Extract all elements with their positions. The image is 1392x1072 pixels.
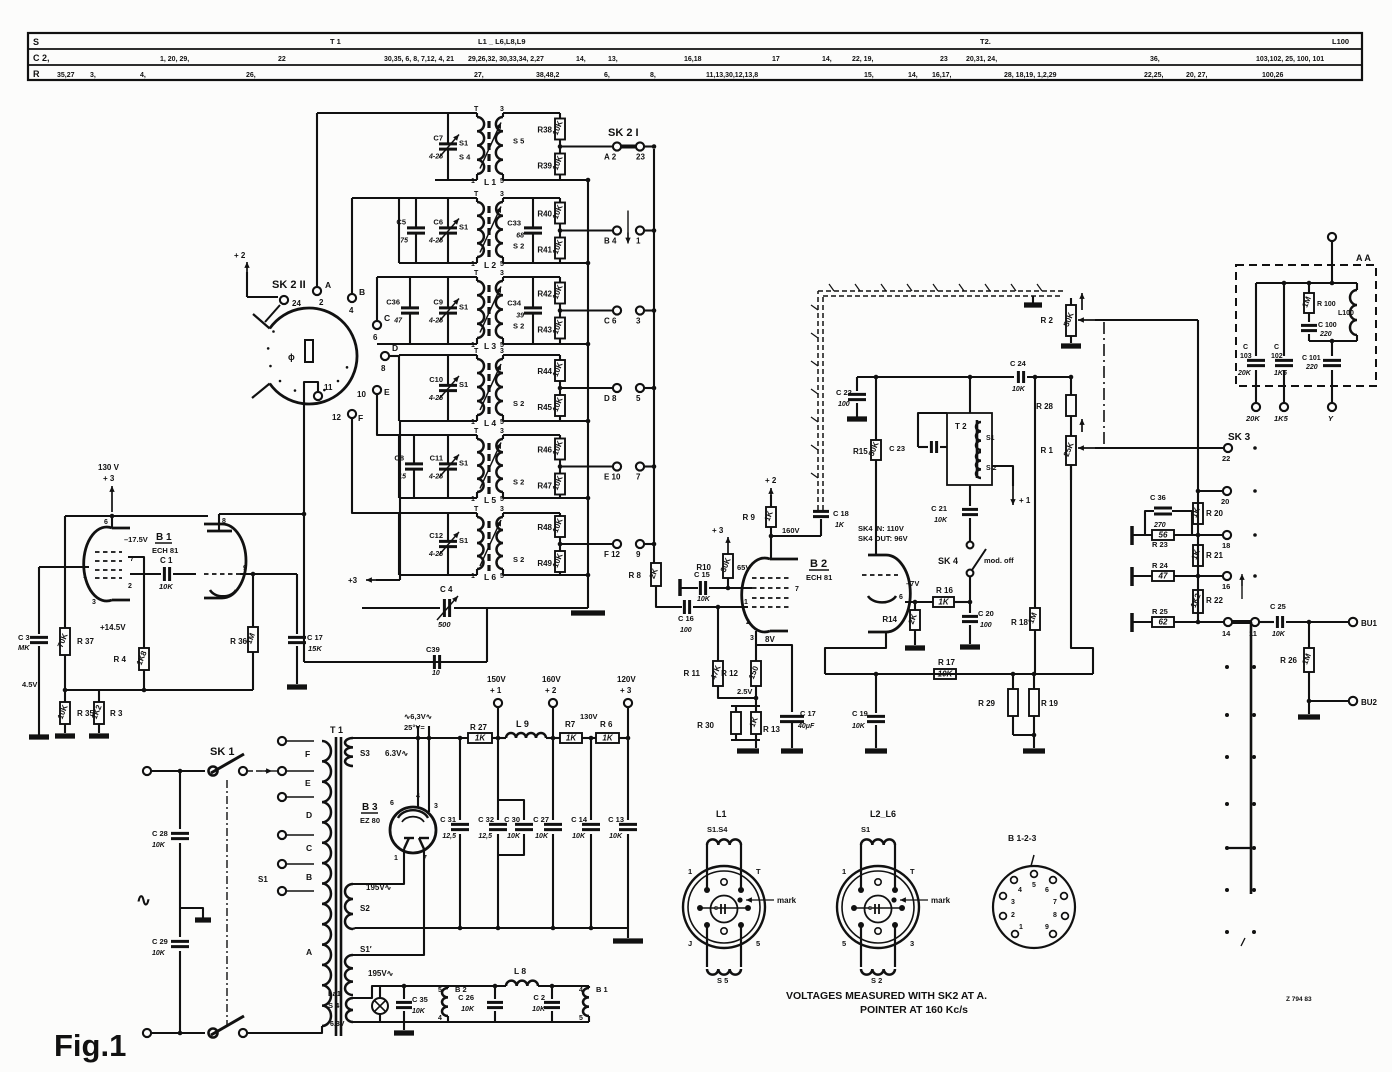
svg-text:47: 47 [1158, 571, 1168, 580]
svg-text:4: 4 [349, 306, 354, 315]
svg-text:C39: C39 [426, 645, 440, 654]
svg-text:T 1: T 1 [330, 725, 343, 735]
capacitor C26 [458, 984, 503, 1022]
terminal 160V +2 [542, 675, 561, 738]
svg-text:2: 2 [746, 619, 750, 626]
wire T2 to rail [969, 377, 971, 413]
svg-text:1K5: 1K5 [1274, 370, 1287, 377]
IF transformer L1 tuning arrow [480, 123, 501, 169]
ground below R30 R13 [737, 748, 759, 753]
label 6.3V 250V at B3 [404, 712, 433, 732]
svg-text:C 100: C 100 [1318, 322, 1337, 329]
winding label S1 of L4 [459, 380, 468, 389]
svg-text:1K: 1K [475, 733, 486, 742]
rail 130V to B1 sections [65, 514, 208, 519]
svg-text:C 32: C 32 [478, 815, 494, 824]
svg-text:S1: S1 [459, 139, 468, 148]
svg-text:R 30: R 30 [697, 721, 714, 730]
wire R38/R39 junction to switch [558, 140, 613, 154]
svg-text:R 16: R 16 [936, 586, 953, 595]
resistor R17 [934, 658, 956, 679]
trimmer capacitor C6 [428, 198, 459, 263]
IF transformer L5 core [487, 443, 490, 494]
svg-text:10K: 10K [159, 582, 173, 591]
svg-text:10K: 10K [1272, 631, 1286, 638]
switch SK3 rotor line [1250, 622, 1253, 894]
svg-text:4: 4 [438, 1015, 442, 1022]
power supply ground [613, 928, 643, 941]
svg-text:R15: R15 [853, 447, 868, 456]
svg-text:C: C [868, 906, 872, 912]
switch SK1 upper pole [209, 754, 248, 776]
terminal 16 of SK3 [1198, 572, 1257, 591]
svg-text:mark: mark [931, 896, 951, 905]
dummy antenna box A-A [1236, 253, 1376, 386]
tube B1 heptode pin labels [83, 556, 134, 606]
svg-text:1, 20, 29,: 1, 20, 29, [160, 56, 189, 63]
heater wire 6.3V to B3 [353, 738, 468, 758]
heater winding of B1 [579, 985, 608, 1022]
svg-text:S 5: S 5 [513, 137, 524, 146]
ground below R19 [1023, 748, 1045, 753]
svg-text:28, 18,19, 1,2,29: 28, 18,19, 1,2,29 [1004, 72, 1057, 79]
svg-text:S1: S1 [986, 435, 995, 442]
svg-text:SK 4: SK 4 [938, 556, 958, 566]
svg-text:R 12: R 12 [721, 669, 738, 678]
oscillator top rail [857, 375, 1014, 380]
tube B1 triode anode plate [207, 514, 232, 531]
svg-text:10K: 10K [152, 950, 166, 957]
transformer T1 primary winding [322, 741, 331, 1026]
terminal B 4 of SK2 II [348, 287, 365, 315]
lamp La1 [372, 986, 388, 1022]
label 160V [782, 526, 800, 535]
svg-text:4-25: 4-25 [428, 154, 443, 161]
terminal 14 of SK3 [1198, 618, 1232, 638]
mains input terminal lower [143, 1029, 205, 1037]
trimmer capacitor C7 [428, 113, 459, 180]
heater rail [353, 986, 589, 998]
svg-text:2: 2 [1011, 912, 1015, 919]
resistor R43 [537, 318, 565, 345]
svg-text:C 29: C 29 [152, 937, 168, 946]
svg-text:R 6: R 6 [600, 720, 613, 729]
svg-text:POINTER AT 160 Kc/s: POINTER AT 160 Kc/s [860, 1004, 968, 1016]
svg-text:S1: S1 [258, 875, 268, 884]
resistor R26 [1280, 622, 1314, 703]
top rail of stage L1 [317, 112, 560, 114]
svg-text:R 100: R 100 [1317, 301, 1336, 308]
svg-text:B 3: B 3 [362, 802, 378, 813]
svg-text:L 6: L 6 [484, 572, 496, 582]
mixer output bus [825, 672, 1093, 677]
svg-text:8V: 8V [765, 635, 775, 644]
resistor R7 [560, 720, 582, 743]
ground below R35 [55, 733, 75, 738]
svg-text:5: 5 [756, 939, 760, 948]
winding label S1 of L3 [459, 303, 468, 312]
IF transformer L3 tuning arrow [480, 287, 501, 333]
wire T1 primary bottom to SK1 [310, 1026, 322, 1033]
top rail of stage L5 [399, 434, 560, 436]
resistor R12 [721, 645, 761, 686]
svg-text:8,: 8, [650, 72, 656, 79]
svg-text:C 36: C 36 [1150, 493, 1166, 502]
svg-text:14,: 14, [576, 56, 586, 63]
switch SK2 I label [608, 127, 639, 139]
terminal C 6 of SK2 I [604, 306, 621, 325]
svg-text:1K5: 1K5 [1274, 414, 1289, 423]
wire SK4 to R16 node [968, 576, 973, 604]
svg-text:195V∿: 195V∿ [368, 969, 394, 978]
svg-text:500: 500 [438, 620, 451, 629]
capacitor C28 [152, 771, 189, 937]
label 6.3V at lamp [330, 1021, 345, 1028]
mains ground tap [180, 908, 211, 920]
terminal 20K [1245, 403, 1260, 423]
capacitor C22 [836, 377, 866, 417]
svg-text:4: 4 [579, 987, 583, 994]
svg-text:1: 1 [842, 867, 846, 876]
svg-text:R14: R14 [882, 615, 897, 624]
supply 130V +3 feed to B1 [98, 463, 120, 512]
resistor R19 [1013, 674, 1058, 748]
svg-text:E: E [305, 778, 311, 788]
tube B1 triode cathode [210, 590, 236, 596]
svg-text:R 22: R 22 [1206, 596, 1223, 605]
svg-text:R 26: R 26 [1280, 656, 1297, 665]
svg-text:L 5: L 5 [484, 495, 496, 505]
svg-text:C6: C6 [433, 218, 443, 227]
tube B1 grid wire to left [39, 566, 89, 568]
svg-text:SK 1: SK 1 [210, 746, 234, 758]
resistor R44 [537, 355, 565, 381]
lamp La1 labels [328, 989, 341, 1010]
terminal 150V +1 [487, 675, 506, 738]
power supply ground bus [355, 926, 628, 931]
svg-text:23: 23 [940, 56, 948, 63]
svg-text:SK 2 I: SK 2 I [608, 127, 639, 139]
svg-text:8: 8 [1053, 912, 1057, 919]
wire E terminal to stage L5 [377, 394, 399, 435]
IF bank ground [571, 610, 605, 615]
component index table frame [28, 33, 1362, 80]
svg-text:A 2: A 2 [604, 153, 617, 162]
terminal E 10 of SK2 II [357, 386, 390, 399]
tube B2 triode grid [862, 574, 898, 576]
svg-text:+ 3: + 3 [620, 686, 632, 695]
IF transformer L4 core [487, 363, 490, 417]
svg-text:29,26,32, 30,33,34, 2,27: 29,26,32, 30,33,34, 2,27 [468, 56, 544, 63]
svg-text:38,48,2: 38,48,2 [536, 72, 559, 79]
cathode rail 4.5V [22, 680, 253, 690]
svg-text:120V: 120V [617, 675, 636, 684]
transformer T1 primary taps [278, 737, 314, 895]
svg-text:3: 3 [750, 635, 754, 642]
svg-text:S 2: S 2 [513, 242, 524, 251]
trimmer capacitor C12 [428, 513, 459, 575]
wire R42/R43 junction to switch [558, 304, 613, 318]
resistor R14 [882, 600, 920, 645]
svg-text:C36: C36 [386, 298, 400, 307]
resistor R23 [1132, 526, 1200, 549]
switch SK3 label [1228, 432, 1251, 443]
svg-text:25°V=: 25°V= [404, 723, 425, 732]
tube B2 triode anode wire [825, 632, 886, 674]
IF transformer L5 secondary winding [496, 428, 504, 498]
svg-text:L2_L6: L2_L6 [870, 809, 896, 819]
wiper arrow at SK3 [1239, 574, 1244, 599]
trimmer capacitor C9 [428, 277, 459, 344]
svg-text:C 19: C 19 [852, 709, 868, 718]
svg-text:1K: 1K [602, 733, 613, 742]
table row C labels [33, 53, 1324, 63]
cathode wire 8V [756, 635, 792, 712]
ground below R26 [1298, 701, 1320, 717]
shielded oscillator line [811, 284, 1066, 510]
svg-text:C9: C9 [433, 298, 443, 307]
grid wire C16 to B2 [693, 605, 748, 610]
svg-text:16: 16 [1222, 582, 1230, 591]
svg-text:1: 1 [744, 599, 748, 606]
resistor R45 [537, 395, 565, 421]
svg-text:S: S [33, 37, 39, 47]
svg-text:1: 1 [1019, 924, 1023, 931]
terminal F 12 of SK2 I [604, 540, 621, 559]
svg-text:T 1: T 1 [330, 37, 341, 46]
ground below C17 electrolytic [781, 748, 803, 753]
tube B2 heptode cathode stub [755, 631, 757, 638]
IF transformer L3 primary winding S1 [474, 270, 484, 344]
svg-text:R48: R48 [537, 523, 552, 532]
svg-text:1: 1 [688, 867, 692, 876]
chassis dash-dot boundary [1103, 322, 1105, 448]
tube B2 label [806, 558, 832, 582]
svg-text:EZ 80: EZ 80 [360, 816, 380, 825]
capacitor C2 [532, 984, 560, 1022]
ground below C17 [287, 684, 307, 689]
svg-text:220: 220 [1319, 331, 1332, 338]
wire +3 arrow to stage L4 column [366, 421, 400, 583]
wire R1 wiper to terminal 22 [1095, 447, 1224, 449]
winding label S2 of L3 [513, 322, 524, 331]
wire S2 bottom to ground bus [353, 928, 355, 929]
svg-text:1: 1 [394, 855, 398, 862]
svg-text:C 28: C 28 [152, 829, 168, 838]
svg-text:75: 75 [400, 238, 408, 245]
terminal D 8 of SK2 I [604, 384, 621, 403]
svg-text:8: 8 [381, 364, 386, 373]
svg-text:22: 22 [278, 56, 286, 63]
svg-text:MK: MK [18, 643, 30, 652]
resistor R20 [1190, 503, 1224, 524]
transformer T1 winding S3 [345, 738, 370, 766]
transformer T1 winding S2 [345, 884, 370, 929]
tube B3 pin labels [390, 793, 438, 862]
svg-text:C 14: C 14 [571, 815, 588, 824]
tube B2 triode pin labels [899, 579, 919, 601]
antenna terminal above A-A box [1328, 233, 1336, 283]
ground below R14 [905, 645, 925, 650]
svg-text:mark: mark [777, 896, 797, 905]
svg-text:Fig.1: Fig.1 [54, 1028, 126, 1063]
svg-text:BU2: BU2 [1361, 698, 1378, 707]
svg-text:4,: 4, [140, 72, 146, 79]
winding label S2 of L4 [513, 399, 524, 408]
IF transformer L3 core [487, 285, 490, 340]
svg-text:S2: S2 [360, 904, 370, 913]
terminal A 2 of SK2 II [313, 280, 331, 307]
svg-text:6: 6 [104, 519, 108, 526]
capacitor C32 [478, 738, 507, 928]
attenuator bus [1197, 320, 1199, 622]
capacitor C21 [931, 485, 978, 541]
svg-text:15K: 15K [308, 644, 322, 653]
svg-text:C 4: C 4 [440, 585, 453, 594]
svg-text:20K: 20K [1245, 414, 1260, 423]
tube B1 triode envelope [204, 524, 246, 598]
wire SK1 to tap E with arrow [247, 768, 278, 773]
switch SK2 II rotor arc [252, 308, 357, 404]
svg-text:10K: 10K [152, 842, 166, 849]
svg-text:C 23: C 23 [889, 444, 905, 453]
svg-text:ϕ: ϕ [288, 352, 295, 362]
svg-text:4.5V: 4.5V [22, 680, 37, 689]
capacitor C29 [152, 937, 189, 1033]
svg-text:S1.S4: S1.S4 [707, 825, 728, 834]
IF transformer L4 secondary winding [496, 348, 504, 421]
capacitor C15 [694, 570, 711, 603]
svg-text:R 17: R 17 [938, 658, 955, 667]
svg-text:T2.: T2. [980, 37, 991, 46]
wire oscillator bottom run [304, 661, 487, 663]
svg-text:–17.5V: –17.5V [124, 535, 148, 544]
left rail of stage L4 [398, 355, 400, 421]
svg-text:5: 5 [579, 1015, 583, 1022]
svg-text:F: F [305, 749, 310, 759]
svg-text:C 30: C 30 [504, 815, 520, 824]
svg-text:R41: R41 [537, 246, 552, 255]
svg-text:R38: R38 [537, 126, 552, 135]
tube B3 cathode risers [418, 726, 429, 812]
capacitor C23 [889, 413, 947, 453]
svg-text:∿: ∿ [136, 890, 151, 910]
svg-text:16,18: 16,18 [684, 56, 702, 63]
wire +2 feed to SK2 II terminal 24 [244, 262, 278, 297]
svg-text:C 24: C 24 [1010, 359, 1027, 368]
svg-text:12,5: 12,5 [442, 833, 456, 840]
svg-text:+14.5V: +14.5V [100, 623, 126, 632]
label 2.5V [737, 687, 752, 696]
svg-text:S1: S1 [459, 223, 468, 232]
switch SK1 label [210, 746, 234, 758]
svg-text:3: 3 [1011, 899, 1015, 906]
capacitor C8 [394, 435, 423, 498]
svg-text:R 37: R 37 [77, 637, 94, 646]
svg-text:1: 1 [636, 237, 641, 246]
wire L9 to R7 [546, 736, 560, 741]
tube B3 heater arc [398, 810, 428, 822]
svg-text:3: 3 [92, 599, 96, 606]
svg-text:7: 7 [1053, 899, 1057, 906]
IF transformer L2 pin labels [471, 260, 504, 270]
top rail of stage L4 [399, 354, 560, 356]
svg-text:+3: +3 [348, 576, 358, 585]
svg-text:S 5: S 5 [717, 976, 728, 985]
svg-text:13,: 13, [608, 56, 618, 63]
svg-text:2.5V: 2.5V [737, 687, 752, 696]
svg-text:SK4 OUT: 96V: SK4 OUT: 96V [858, 534, 908, 543]
terminal 11 of SK2 II [314, 383, 333, 400]
IF transformer L2 core [487, 206, 490, 259]
svg-text:20, 27,: 20, 27, [1186, 72, 1207, 79]
svg-text:R44: R44 [537, 367, 552, 376]
wire B terminal riser [351, 198, 353, 294]
svg-text:26,: 26, [246, 72, 256, 79]
svg-text:100: 100 [680, 627, 692, 634]
wire R2 wiper to attenuator bus [1095, 319, 1198, 321]
label 195V of S2 [366, 883, 392, 892]
svg-text:T: T [756, 867, 761, 876]
label +14.5V [100, 623, 126, 632]
svg-text:+ 1: + 1 [1019, 496, 1031, 505]
tube B2 heptode pin labels [744, 586, 799, 642]
output jack BU1 [1349, 618, 1378, 628]
svg-text:S1′: S1′ [360, 945, 372, 954]
table row S labels [33, 37, 1349, 47]
svg-text:6: 6 [1045, 887, 1049, 894]
capacitor C20 [962, 602, 994, 644]
wiper arrow of SK2 I [625, 211, 630, 244]
capacitor C35 [396, 984, 428, 1030]
terminal 23 of SK2 I [636, 142, 656, 161]
svg-text:11: 11 [324, 383, 333, 392]
svg-text:B 1: B 1 [596, 985, 608, 994]
top rail of stage L6 [399, 512, 560, 514]
svg-text:10K: 10K [609, 833, 623, 840]
terminal D 8 of SK2 II [381, 343, 398, 373]
wire B1 triode grid output [240, 572, 297, 577]
svg-text:1K: 1K [938, 597, 949, 606]
svg-text:C11: C11 [430, 454, 443, 463]
resistor R38 [537, 113, 565, 140]
svg-text:S 2: S 2 [871, 976, 882, 985]
IF transformer L6 tuning arrow [480, 520, 501, 566]
potentiometer R2 [1041, 298, 1095, 343]
switch SK2 II tick marks [267, 330, 348, 392]
svg-text:C: C [1274, 344, 1279, 351]
svg-text:+ 3: + 3 [712, 526, 724, 535]
transformer T2 box [947, 413, 992, 485]
resistor R29 [978, 672, 1018, 735]
svg-text:S 4: S 4 [328, 1001, 340, 1010]
trimmer capacitor C11 [428, 435, 459, 498]
tube B3 envelope [390, 807, 436, 853]
winding label S2 of L6 [513, 555, 524, 564]
coil socket diagram L1 [683, 809, 797, 985]
wire S1' to B3 anode [353, 849, 424, 955]
wire to BU2 [1309, 700, 1349, 702]
svg-text:R40: R40 [537, 210, 552, 219]
output jack BU2 [1349, 697, 1378, 707]
supply arrow +1 at T2 [992, 466, 1031, 505]
ground below C35 [394, 1030, 414, 1035]
svg-text:SK 3: SK 3 [1228, 432, 1251, 443]
supply arrow +3 at R10 [712, 526, 731, 554]
svg-text:5: 5 [842, 939, 846, 948]
tube B2 heptode envelope [742, 558, 798, 632]
label 65V [737, 563, 750, 572]
